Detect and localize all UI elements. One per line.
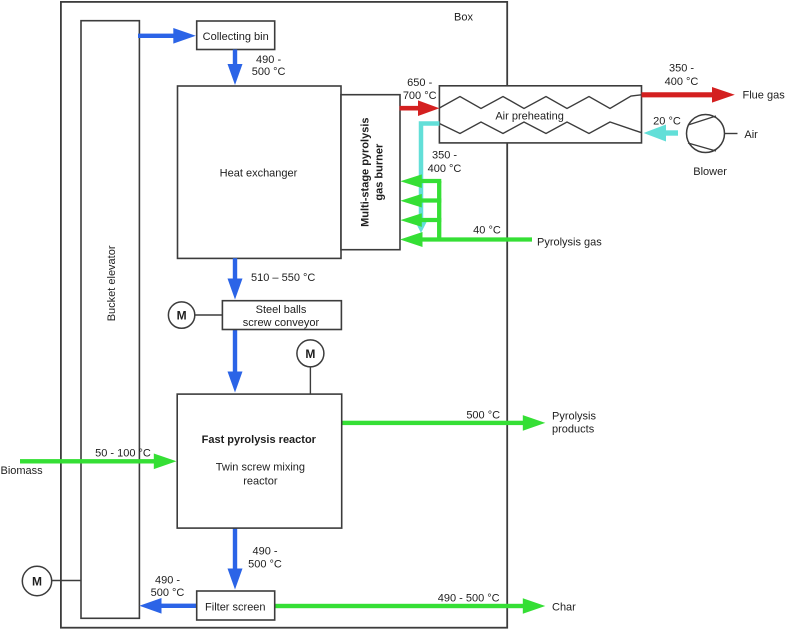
svg-text:Air preheating: Air preheating <box>495 111 564 123</box>
svg-text:Pyrolysis gas: Pyrolysis gas <box>537 236 602 248</box>
svg-text:Biomass: Biomass <box>1 465 44 477</box>
svg-text:Flue gas: Flue gas <box>743 90 785 102</box>
svg-text:Blower: Blower <box>693 166 727 178</box>
svg-text:510 – 550 °C: 510 – 550 °C <box>251 272 315 284</box>
svg-text:20 °C: 20 °C <box>653 116 681 128</box>
svg-text:Char: Char <box>552 601 576 613</box>
svg-text:500 °C: 500 °C <box>151 587 185 599</box>
svg-text:Filter screen: Filter screen <box>205 602 266 614</box>
svg-text:490 -: 490 - <box>155 575 180 587</box>
svg-text:500 °C: 500 °C <box>252 66 286 78</box>
svg-text:490 - 500 °C: 490 - 500 °C <box>438 592 500 604</box>
svg-text:Heat exchanger: Heat exchanger <box>220 168 298 180</box>
svg-text:490 -: 490 - <box>252 545 277 557</box>
svg-text:Collecting bin: Collecting bin <box>203 31 269 43</box>
svg-text:40 °C: 40 °C <box>473 224 501 236</box>
svg-text:Pyrolysis: Pyrolysis <box>552 411 597 423</box>
svg-text:350 -: 350 - <box>432 149 457 161</box>
svg-text:700 °C: 700 °C <box>403 90 437 102</box>
svg-text:500 °C: 500 °C <box>466 410 500 422</box>
svg-text:Fast pyrolysis reactor: Fast pyrolysis reactor <box>202 434 317 446</box>
svg-text:Twin screw mixing: Twin screw mixing <box>216 462 305 474</box>
svg-text:M: M <box>177 309 187 323</box>
svg-text:Bucket elevator: Bucket elevator <box>106 245 118 321</box>
svg-text:M: M <box>305 347 315 361</box>
svg-text:50 - 100 °C: 50 - 100 °C <box>95 448 151 460</box>
svg-text:650 -: 650 - <box>407 77 432 89</box>
svg-text:products: products <box>552 424 595 436</box>
svg-text:350 -: 350 - <box>669 62 694 74</box>
svg-text:Box: Box <box>454 12 473 24</box>
svg-text:500 °C: 500 °C <box>248 559 282 571</box>
svg-text:Multi-stage pyrolysis: Multi-stage pyrolysis <box>360 117 372 226</box>
svg-text:400 °C: 400 °C <box>428 163 462 175</box>
svg-text:490 -: 490 - <box>256 54 281 66</box>
svg-text:screw conveyor: screw conveyor <box>243 317 320 329</box>
svg-text:M: M <box>32 575 42 589</box>
svg-text:Air: Air <box>744 129 758 141</box>
svg-text:gas burner: gas burner <box>373 143 385 201</box>
svg-text:400 °C: 400 °C <box>665 76 699 88</box>
svg-text:Steel balls: Steel balls <box>256 304 307 316</box>
svg-text:reactor: reactor <box>243 476 278 488</box>
